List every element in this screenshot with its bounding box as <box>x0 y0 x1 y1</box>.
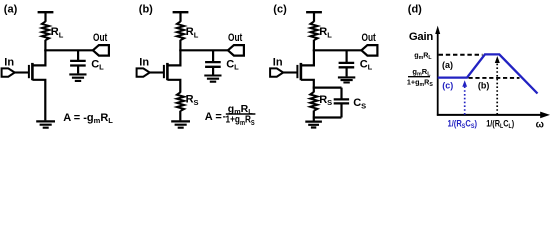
Out terminal (a) <box>93 45 109 56</box>
capacitor CL (b) <box>205 62 221 67</box>
In terminal (b) <box>137 68 150 76</box>
wire CS bottom (c) <box>340 104 342 117</box>
svg-text:RS: RS <box>186 94 199 107</box>
svg-text:In: In <box>4 57 14 69</box>
svg-text:(a): (a) <box>442 60 453 70</box>
svg-text:1+gmRS: 1+gmRS <box>407 77 433 88</box>
Out terminal (c) <box>361 45 377 56</box>
transistor M1 gate bar (a) <box>28 65 30 78</box>
wire output node (c) <box>313 49 362 51</box>
wire output to CL (c) <box>346 50 348 62</box>
wire output node (a) <box>44 49 93 51</box>
VDD supply rail (b) <box>173 11 189 13</box>
fraction bar (d) <box>408 76 430 78</box>
wire drain (a) <box>33 50 45 65</box>
svg-text:In: In <box>273 57 283 69</box>
wire RS-CS top rail (c) <box>313 86 342 88</box>
wire CL to ground (c) <box>346 68 348 77</box>
wire source to RS (b) <box>167 80 180 93</box>
wire VDD to RL (a) <box>44 12 46 22</box>
resistor RL (b) <box>177 21 184 40</box>
arrowhead 1/(RLCL) (d) <box>495 56 500 63</box>
svg-text:ω: ω <box>536 119 544 130</box>
svg-text:CS: CS <box>353 97 366 110</box>
transistor M1 channel bar (a) <box>31 63 34 80</box>
wire output to CL (b) <box>212 50 214 61</box>
ground (a) <box>36 121 55 127</box>
Out terminal (b) <box>228 45 244 56</box>
svg-text:(a): (a) <box>4 4 18 16</box>
svg-text:CL: CL <box>91 58 104 71</box>
dashed level gmRL (d) <box>439 54 483 56</box>
gain curve blue (d) <box>438 54 538 93</box>
svg-text:gmRL: gmRL <box>414 50 432 61</box>
dotted marker 1/(RSCS) blue (d) <box>464 86 466 115</box>
wire VDD to RL (b) <box>179 12 181 22</box>
wire drain (b) <box>168 50 180 65</box>
wire output node (b) <box>179 49 228 51</box>
svg-text:(c): (c) <box>273 4 287 16</box>
svg-text:RL: RL <box>51 26 64 39</box>
In terminal (a) <box>2 68 15 76</box>
VDD supply rail (c) <box>306 11 322 13</box>
svg-text:(b): (b) <box>139 4 153 16</box>
dashed level low right (d) <box>469 77 520 79</box>
ground CL (b) <box>204 76 221 82</box>
wire RS to ground (c) <box>313 111 315 122</box>
arrowhead 1/(RSCS) blue (d) <box>462 80 467 87</box>
svg-text:RL: RL <box>186 26 199 39</box>
wire RL to output node (c) <box>313 40 315 51</box>
wire gate (c) <box>283 71 297 73</box>
capacitor CS (c) <box>334 99 349 103</box>
wire CS top (c) <box>340 88 342 99</box>
svg-text:1/(RLCL): 1/(RLCL) <box>486 118 514 130</box>
x axis (d) <box>437 114 542 116</box>
resistor RL (c) <box>310 21 317 40</box>
ground (c) <box>305 122 322 128</box>
resistor RS (c) <box>310 92 317 111</box>
y axis (d) <box>437 32 439 116</box>
wire gate (b) <box>149 71 163 73</box>
svg-text:Out: Out <box>228 32 243 44</box>
svg-text:Out: Out <box>93 32 108 44</box>
ground CL (c) <box>338 77 355 82</box>
svg-text:RS: RS <box>319 94 332 107</box>
resistor RS (b) <box>177 92 184 111</box>
wire drain (c) <box>302 50 314 65</box>
transistor M1 channel bar (b) <box>166 63 169 80</box>
svg-text:1/(RSCS): 1/(RSCS) <box>448 118 478 130</box>
transistor M1 channel bar (c) <box>300 63 303 80</box>
dotted marker 1/(RLCL) (d) <box>496 63 498 115</box>
wire output to CL (a) <box>77 50 79 60</box>
svg-text:(b): (b) <box>478 81 490 91</box>
transistor M1 gate bar (b) <box>163 65 165 78</box>
svg-text:(d): (d) <box>408 4 422 16</box>
svg-text:(c): (c) <box>442 81 453 91</box>
capacitor CL (c) <box>339 63 355 67</box>
svg-text:gmRL: gmRL <box>412 67 431 78</box>
ground CL (a) <box>69 74 86 81</box>
x axis arrowhead (d) <box>540 112 550 119</box>
svg-text:In: In <box>139 57 149 69</box>
transistor M1 gate bar (c) <box>296 65 298 78</box>
In terminal (c) <box>270 68 283 76</box>
svg-text:A =: A = <box>205 111 222 123</box>
wire RL to output node (b) <box>179 40 181 51</box>
wire RS to ground (b) <box>179 111 181 121</box>
wire gate (a) <box>14 71 28 73</box>
wire RS-CS bottom rail (c) <box>313 116 342 118</box>
svg-text:Gain: Gain <box>409 31 433 43</box>
wire source to RS node (c) <box>301 80 314 88</box>
VDD supply rail (a) <box>38 11 54 13</box>
ground (b) <box>171 121 190 127</box>
svg-text:CL: CL <box>360 58 373 71</box>
wire VDD to RL (c) <box>313 12 315 22</box>
wire RS top stub (c) <box>313 88 315 93</box>
svg-text:Out: Out <box>362 32 377 44</box>
svg-text:RL: RL <box>319 26 332 39</box>
svg-text:A = -gmRL: A = -gmRL <box>63 112 113 125</box>
resistor RL (a) <box>42 21 49 40</box>
y axis arrowhead (d) <box>435 26 440 34</box>
wire CL to ground (b) <box>212 67 214 74</box>
wire CL to ground (a) <box>77 66 79 73</box>
wire RL to output node (a) <box>44 40 46 51</box>
svg-text:CL: CL <box>226 58 239 71</box>
capacitor CL (a) <box>70 61 86 66</box>
wire source to ground (a) <box>32 80 45 121</box>
